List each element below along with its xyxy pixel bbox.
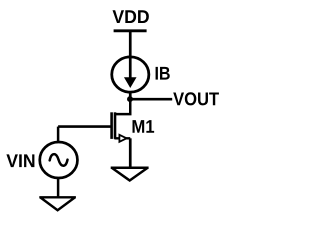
label VDD: [113, 10, 149, 23]
current source IB: [112, 57, 149, 92]
transistor M1: [112, 112, 131, 142]
label M1: [133, 120, 155, 133]
wire node to drain of M1: [114, 99, 130, 114]
label IB: [156, 67, 170, 80]
source VIN (ac source): [40, 142, 78, 178]
ground (M1 source): [111, 168, 149, 181]
supply VDD (rail bar): [114, 29, 147, 32]
node VOUT junction dot: [127, 96, 133, 102]
wire VIN source to ground: [57, 179, 60, 197]
wire VDD bar to current source: [129, 31, 132, 57]
ground (VIN): [39, 197, 76, 210]
wire current source to node: [129, 93, 132, 100]
wire gate to VIN source: [57, 127, 60, 142]
label VOUT: [173, 92, 219, 105]
source lead with arrow: [114, 137, 130, 139]
wire source of M1 to ground: [129, 138, 132, 167]
channel bar: [114, 112, 117, 139]
label VIN: [6, 154, 34, 167]
wire node to VOUT label: [130, 98, 172, 101]
wire gate lead: [58, 125, 110, 128]
gate bar: [110, 112, 113, 139]
